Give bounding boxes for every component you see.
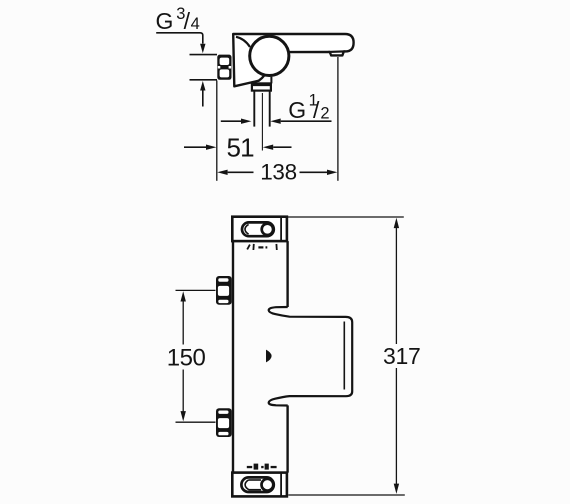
svg-text:G: G bbox=[156, 8, 174, 34]
svg-text:G: G bbox=[288, 97, 306, 123]
svg-text:4: 4 bbox=[191, 15, 200, 33]
svg-text:138: 138 bbox=[260, 160, 297, 185]
svg-text:317: 317 bbox=[383, 343, 420, 369]
svg-text:/: / bbox=[184, 8, 191, 34]
svg-text:/: / bbox=[313, 97, 320, 123]
svg-text:2: 2 bbox=[320, 104, 329, 122]
svg-text:150: 150 bbox=[167, 345, 206, 372]
svg-text:51: 51 bbox=[227, 132, 255, 162]
